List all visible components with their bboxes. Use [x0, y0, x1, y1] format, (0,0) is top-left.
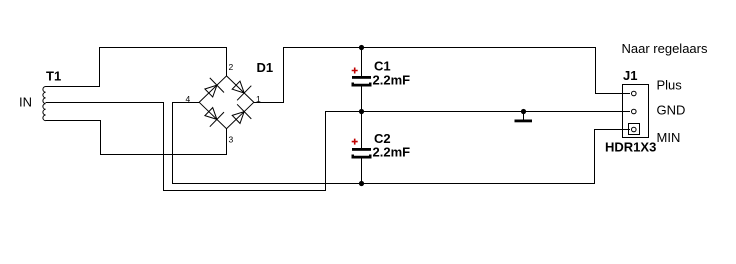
svg-text:J1: J1: [623, 68, 637, 83]
svg-text:2.2mF: 2.2mF: [373, 73, 411, 88]
svg-text:MIN: MIN: [657, 130, 681, 145]
svg-text:2.2mF: 2.2mF: [373, 145, 411, 160]
svg-text:4: 4: [186, 94, 191, 104]
svg-text:3: 3: [229, 135, 234, 145]
svg-text:1: 1: [256, 94, 261, 104]
svg-text:C2: C2: [374, 131, 391, 146]
svg-text:Plus: Plus: [657, 78, 683, 93]
svg-text:GND: GND: [657, 103, 686, 118]
svg-text:D1: D1: [257, 60, 274, 75]
svg-text:Naar regelaars: Naar regelaars: [622, 41, 708, 56]
svg-text:IN: IN: [19, 95, 32, 110]
svg-text:T1: T1: [46, 69, 61, 84]
svg-text:C1: C1: [374, 58, 391, 73]
svg-text:2: 2: [229, 62, 234, 72]
svg-text:HDR1X3: HDR1X3: [605, 140, 656, 155]
